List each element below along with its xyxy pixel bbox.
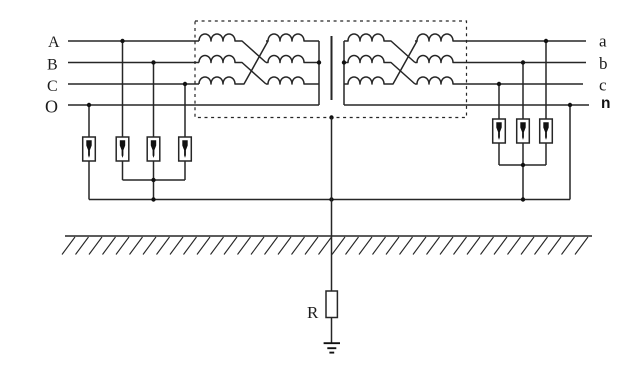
- svg-text:R: R: [307, 303, 319, 322]
- junction bus left: [151, 197, 155, 201]
- transformer T1 enclosure dashed boundary: [195, 21, 467, 118]
- svg-text:O: O: [45, 97, 58, 117]
- junction b-F6: [521, 60, 525, 64]
- svg-text:a: a: [599, 32, 607, 51]
- wire neutral O input: [68, 104, 319, 106]
- svg-text:A: A: [48, 34, 60, 51]
- wire left link to ground bus: [153, 180, 155, 200]
- wire O drop to F1: [88, 105, 90, 137]
- junction right arrester link: [521, 163, 525, 167]
- junction n drop: [568, 103, 572, 107]
- junction a-F7: [544, 39, 548, 43]
- svg-text:b: b: [599, 54, 608, 73]
- earth surface line: [65, 235, 592, 237]
- wire F7 bottom: [545, 143, 547, 165]
- wire right link to ground bus: [522, 165, 524, 200]
- svg-text:B: B: [47, 57, 58, 74]
- wire phase B input: [68, 62, 199, 64]
- transformer core: [331, 36, 333, 100]
- junction B-F3: [151, 60, 155, 64]
- svg-text:c: c: [599, 76, 607, 95]
- wire F3 bottom: [153, 161, 155, 180]
- primary row3 right coil: [266, 77, 319, 84]
- junction primary bus row2: [317, 60, 321, 64]
- junction bus right: [521, 197, 525, 201]
- secondary row3 left coil + link to row1: [344, 41, 417, 84]
- wire F1 to ground bus: [88, 161, 90, 200]
- surge arrester F4: [179, 137, 192, 161]
- wire left arrester link: [123, 179, 186, 181]
- surge arrester F7: [540, 119, 553, 143]
- wire F6 bottom: [522, 143, 524, 165]
- secondary row1 left coil + link to row2: [344, 34, 415, 63]
- surge arrester F1: [83, 137, 96, 161]
- primary row2 left coil + link to row3: [199, 56, 266, 85]
- secondary row3 right coil + wire c: [415, 77, 583, 84]
- ground bus wire: [89, 199, 570, 201]
- earth surface hatching: [62, 237, 588, 255]
- svg-text:n: n: [601, 95, 610, 112]
- wire a drop to F7: [545, 41, 547, 119]
- primary row2 right coil: [266, 56, 319, 63]
- surge arrester F5: [493, 119, 506, 143]
- junction enclosure earthing tap: [329, 115, 333, 119]
- surge arrester F3: [147, 137, 160, 161]
- wire neutral n output: [344, 104, 589, 106]
- junction C-F4: [183, 82, 187, 86]
- wire n drop to ground bus: [569, 105, 571, 200]
- secondary row2 right coil + wire b: [415, 56, 586, 63]
- wire F2 bottom: [122, 161, 124, 180]
- wire earthing conductor: [331, 118, 333, 292]
- wire phase C input: [68, 83, 199, 85]
- wire phase A input: [68, 40, 199, 42]
- junction bus center: [329, 197, 333, 201]
- surge arrester F6: [517, 119, 530, 143]
- junction left arrester link: [151, 178, 155, 182]
- primary star-point bus: [318, 41, 320, 105]
- junction O-F1: [87, 103, 91, 107]
- wire b drop to F6: [522, 63, 524, 120]
- wire C drop to F4: [184, 84, 186, 137]
- surge arrester F2: [116, 137, 129, 161]
- wire F4 bottom: [184, 161, 186, 180]
- secondary star-point bus: [343, 41, 345, 105]
- primary row1 left coil + link to row2: [199, 34, 266, 63]
- junction secondary bus row2: [342, 60, 346, 64]
- wire resistor to earth: [331, 318, 333, 344]
- wire B drop to F3: [153, 63, 155, 138]
- ground symbol: [324, 343, 340, 352]
- secondary row1 right coil + wire a: [415, 34, 586, 41]
- primary row1 right coil: [266, 34, 319, 41]
- wire right arrester link: [499, 164, 546, 166]
- junction c-F5: [497, 82, 501, 86]
- junction A-F2: [120, 39, 124, 43]
- resistor R: [326, 291, 337, 318]
- wire F5 bottom: [498, 143, 500, 165]
- secondary row2 left coil + link to row3: [344, 56, 415, 85]
- primary row3 left coil + link to row1: [199, 41, 268, 84]
- wire A drop to F2: [122, 41, 124, 137]
- wire c drop to F5: [498, 84, 500, 119]
- svg-text:C: C: [47, 78, 58, 95]
